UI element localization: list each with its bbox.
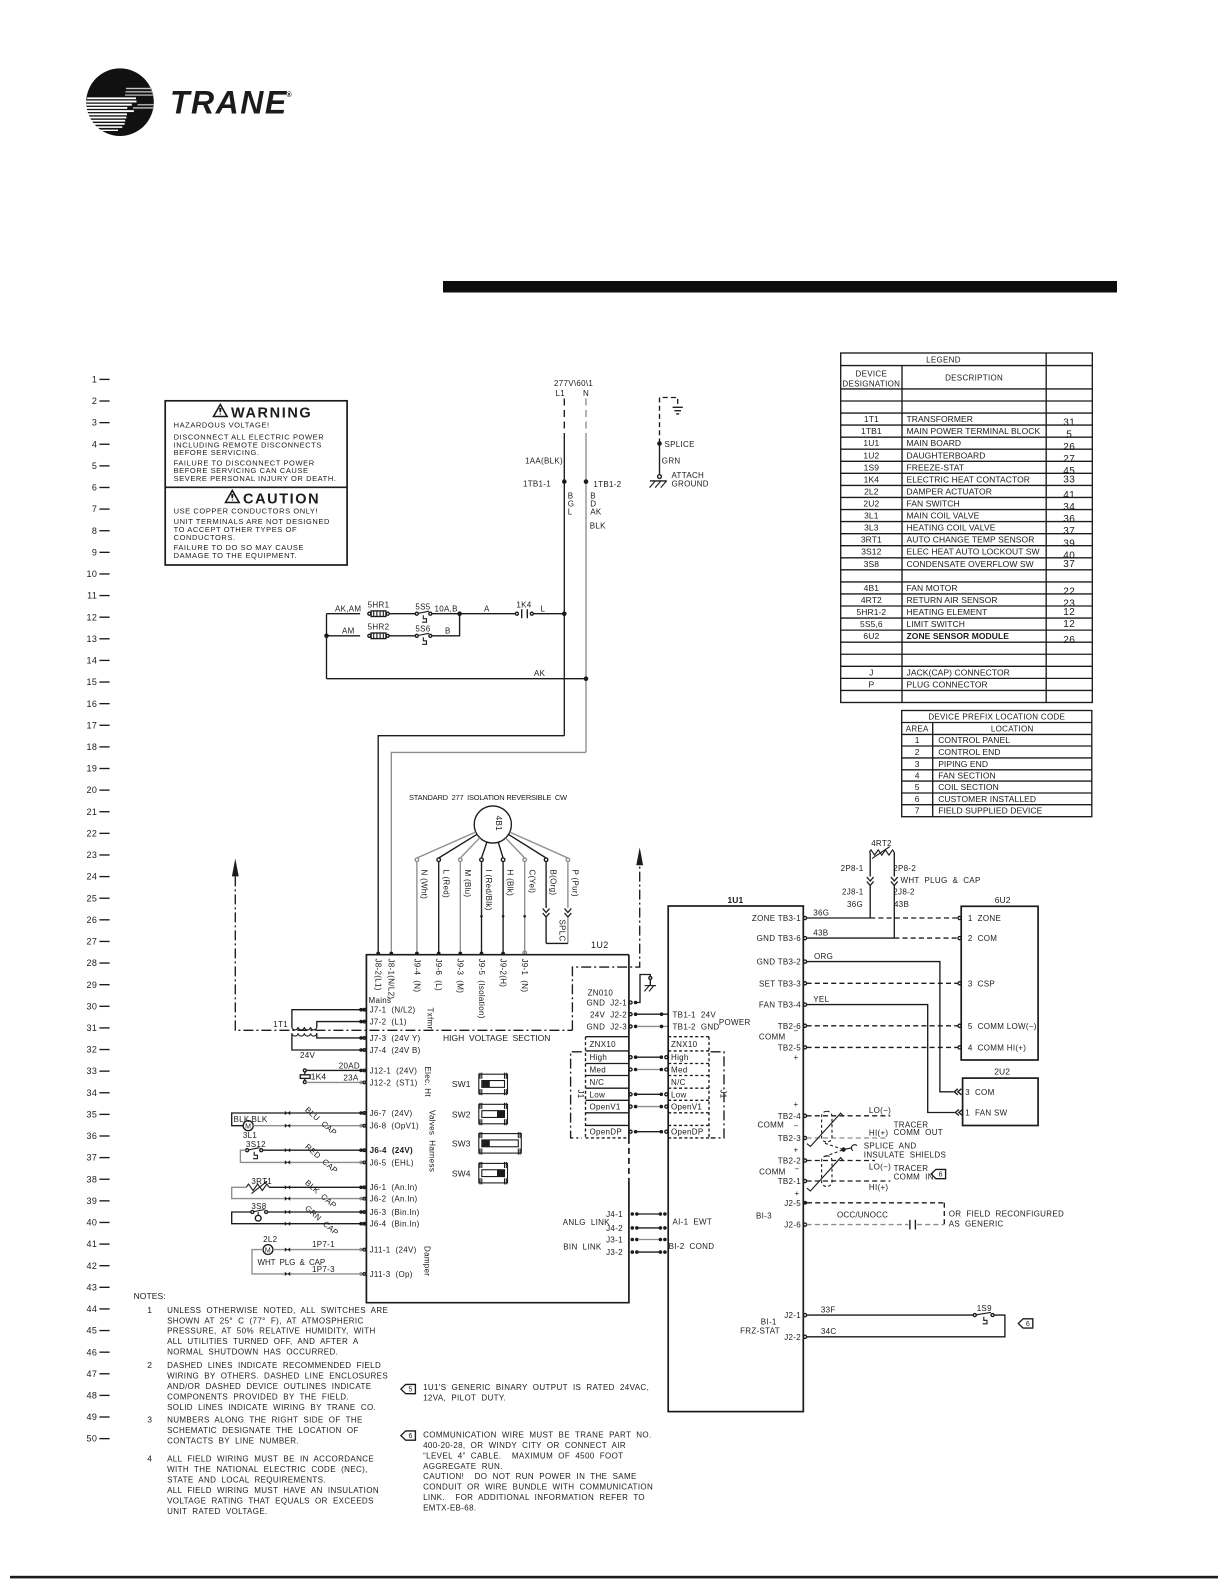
svg-text:AM: AM bbox=[342, 626, 355, 635]
svg-text:1U2: 1U2 bbox=[591, 940, 609, 950]
svg-text:27: 27 bbox=[1063, 454, 1075, 465]
svg-text:1U1: 1U1 bbox=[728, 895, 744, 905]
svg-text:J6-7 (24V): J6-7 (24V) bbox=[370, 1109, 413, 1118]
svg-text:SW2: SW2 bbox=[452, 1109, 471, 1119]
svg-text:J2-6: J2-6 bbox=[784, 1221, 801, 1230]
svg-text:RETURN AIR SENSOR: RETURN AIR SENSOR bbox=[907, 595, 998, 605]
svg-text:50: 50 bbox=[86, 1434, 97, 1444]
svg-text:4B1: 4B1 bbox=[864, 583, 880, 593]
svg-text:DAUGHTERBOARD: DAUGHTERBOARD bbox=[907, 450, 986, 460]
chassis ground symbol bbox=[644, 986, 656, 992]
svg-text:BIN LINK: BIN LINK bbox=[563, 1242, 602, 1251]
svg-text:32: 32 bbox=[86, 1045, 97, 1055]
svg-text:L (Red): L (Red) bbox=[441, 870, 450, 899]
wire 2P8-1 lead bbox=[869, 853, 871, 877]
svg-text:ALL FIELD WIRING MUST HAVE: ALL FIELD WIRING MUST HAVE AN INSULATION bbox=[167, 1486, 379, 1495]
splice node bbox=[657, 441, 662, 446]
svg-text:ZONE TB3-1: ZONE TB3-1 bbox=[752, 914, 801, 923]
svg-text:“LEVEL 4” CABLE. MAXIMUM: “LEVEL 4” CABLE. MAXIMUM OF 4500 FOOT bbox=[423, 1451, 623, 1460]
svg-text:27: 27 bbox=[86, 937, 97, 947]
svg-text:GRN: GRN bbox=[662, 457, 681, 466]
svg-text:34C: 34C bbox=[821, 1327, 837, 1336]
svg-text:USE COPPER CONDUCTORS ONLY!: USE COPPER CONDUCTORS ONLY! bbox=[174, 507, 319, 516]
pin 6U2 4 bbox=[958, 1046, 961, 1049]
svg-text:LOCATION: LOCATION bbox=[991, 725, 1034, 734]
svg-text:3L1: 3L1 bbox=[864, 511, 879, 521]
svg-text:TB2-1: TB2-1 bbox=[778, 1177, 802, 1186]
svg-text:1K4: 1K4 bbox=[311, 1072, 327, 1082]
connector ZNX10 on 1U1 (field) bbox=[668, 1037, 709, 1138]
svg-text:ZNX10: ZNX10 bbox=[671, 1040, 698, 1049]
svg-text:ORG: ORG bbox=[814, 952, 833, 961]
wire bbox=[389, 613, 415, 615]
svg-text:4: 4 bbox=[92, 439, 97, 449]
svg-text:1K4: 1K4 bbox=[516, 601, 531, 610]
svg-text:17: 17 bbox=[86, 720, 97, 730]
svg-text:N/C: N/C bbox=[671, 1078, 686, 1087]
boundary arrow right bbox=[636, 847, 643, 865]
svg-text:5: 5 bbox=[408, 1386, 412, 1393]
svg-text:5HR1-2: 5HR1-2 bbox=[856, 607, 886, 617]
svg-text:34: 34 bbox=[86, 1088, 97, 1098]
svg-text:N: N bbox=[583, 389, 589, 398]
svg-text:2U2: 2U2 bbox=[863, 499, 879, 509]
svg-text:33F: 33F bbox=[821, 1305, 836, 1314]
wire AK bottom bbox=[327, 678, 587, 680]
svg-text:20: 20 bbox=[86, 785, 97, 795]
wire 33F to 1S9 bbox=[807, 1314, 974, 1316]
svg-text:LINK. FOR ADDITIONAL INFO: LINK. FOR ADDITIONAL INFORMATION REFER T… bbox=[423, 1493, 645, 1502]
top edge connection dots J8 bbox=[376, 952, 380, 956]
svg-text:6: 6 bbox=[915, 794, 920, 804]
wire TB2-2 LO(-) comm in bbox=[807, 1160, 875, 1162]
svg-text:BI-2 COND: BI-2 COND bbox=[669, 1242, 715, 1251]
svg-text:+: + bbox=[794, 1100, 799, 1109]
wire color codes N bbox=[590, 492, 606, 531]
svg-text:P (Pur): P (Pur) bbox=[571, 870, 580, 897]
svg-text:N/C: N/C bbox=[590, 1078, 605, 1087]
wire J2-6 unocc bbox=[807, 1224, 909, 1226]
svg-text:6U2: 6U2 bbox=[863, 631, 879, 641]
svg-text:WIRING BY OTHERS. DASHED L: WIRING BY OTHERS. DASHED LINE ENCLOSURES bbox=[167, 1371, 388, 1380]
svg-text:J7-3 (24V Y): J7-3 (24V Y) bbox=[370, 1034, 421, 1043]
svg-text:P: P bbox=[868, 679, 874, 689]
svg-text:HAZARDOUS VOLTAGE!: HAZARDOUS VOLTAGE! bbox=[174, 420, 270, 429]
svg-text:GND J2-1: GND J2-1 bbox=[587, 999, 628, 1008]
svg-text:41: 41 bbox=[1063, 490, 1075, 501]
svg-text:TRANE: TRANE bbox=[170, 85, 288, 121]
comm labels 1U1 bbox=[740, 1026, 799, 1335]
svg-text:7: 7 bbox=[915, 806, 920, 816]
svg-text:NUMBERS ALONG THE RIGHT SI: NUMBERS ALONG THE RIGHT SIDE OF THE bbox=[167, 1415, 363, 1424]
svg-text:SW1: SW1 bbox=[452, 1079, 471, 1089]
wire fan lead B(Org) bbox=[509, 834, 547, 858]
svg-text:J3-1: J3-1 bbox=[606, 1236, 623, 1245]
svg-text:®: ® bbox=[287, 91, 293, 99]
svg-text:J2-1: J2-1 bbox=[784, 1311, 801, 1320]
svg-text:OR FIELD RECONFIGURED: OR FIELD RECONFIGURED bbox=[949, 1209, 1064, 1218]
svg-text:DESCRIPTION: DESCRIPTION bbox=[945, 374, 1003, 383]
svg-text:23: 23 bbox=[86, 850, 97, 860]
splice chevrons on P(Pur) wire bbox=[567, 862, 569, 908]
svg-text:3 COM: 3 COM bbox=[965, 1088, 994, 1097]
svg-text:AK,AM: AK,AM bbox=[335, 604, 361, 613]
svg-text:J9-5 (Isolation): J9-5 (Isolation) bbox=[477, 959, 486, 1019]
dip switch SW1 bbox=[452, 1073, 508, 1096]
svg-text:AS GENERIC: AS GENERIC bbox=[949, 1219, 1004, 1228]
svg-text:3S8: 3S8 bbox=[864, 559, 880, 569]
svg-text:L: L bbox=[568, 508, 573, 517]
svg-text:TB2-3: TB2-3 bbox=[778, 1134, 802, 1143]
svg-text:3: 3 bbox=[92, 418, 97, 428]
svg-text:1U1: 1U1 bbox=[863, 438, 879, 448]
svg-text:J7-2 (L1): J7-2 (L1) bbox=[370, 1018, 407, 1027]
svg-text:23A: 23A bbox=[343, 1073, 358, 1082]
svg-text:COIL SECTION: COIL SECTION bbox=[938, 782, 999, 792]
svg-text:6: 6 bbox=[1026, 1321, 1030, 1328]
svg-text:11: 11 bbox=[87, 591, 97, 601]
svg-text:INSULATE SHIELDS: INSULATE SHIELDS bbox=[864, 1150, 946, 1159]
wire N drop bbox=[585, 399, 587, 435]
svg-text:L1: L1 bbox=[556, 389, 566, 398]
svg-text:6U2: 6U2 bbox=[995, 895, 1011, 905]
svg-text:COMPONENTS PROVIDED BY THE: COMPONENTS PROVIDED BY THE FIELD. bbox=[167, 1392, 349, 1401]
attach ground terminal bbox=[658, 475, 662, 479]
svg-text:J6-4 (24V): J6-4 (24V) bbox=[370, 1146, 413, 1155]
wire N routing to 1U2 J8-1 bbox=[391, 752, 586, 954]
svg-text:M (Blu): M (Blu) bbox=[463, 870, 472, 898]
bottom border rule bbox=[10, 1576, 1218, 1579]
svg-text:Low: Low bbox=[590, 1090, 606, 1099]
wire TB2-1 HI(+) comm in bbox=[807, 1180, 891, 1182]
svg-text:J2-2: J2-2 bbox=[784, 1333, 801, 1342]
svg-text:LIMIT SWITCH: LIMIT SWITCH bbox=[907, 619, 965, 629]
svg-text:HEATING ELEMENT: HEATING ELEMENT bbox=[907, 607, 988, 617]
svg-text:High: High bbox=[671, 1053, 689, 1062]
wire fan lead I (Red/Blk) bbox=[482, 842, 487, 858]
svg-text:2 COM: 2 COM bbox=[968, 934, 997, 943]
wire 34C return bbox=[807, 1315, 1005, 1337]
svg-text:277V\60\1: 277V\60\1 bbox=[554, 379, 593, 388]
svg-text:AI-1 EWT: AI-1 EWT bbox=[673, 1217, 713, 1226]
transformer 1T1 bbox=[273, 1010, 366, 1060]
svg-text:J6-8 (OpV1): J6-8 (OpV1) bbox=[370, 1122, 419, 1131]
svg-text:3: 3 bbox=[915, 759, 920, 769]
svg-text:46: 46 bbox=[86, 1347, 97, 1357]
note 2 bbox=[147, 1360, 388, 1412]
svg-text:J3-2: J3-2 bbox=[606, 1248, 623, 1257]
svg-text:2P8-1: 2P8-1 bbox=[841, 864, 864, 873]
fan motor 4B1 bbox=[474, 806, 511, 843]
svg-text:3: 3 bbox=[147, 1414, 152, 1424]
svg-text:2U2: 2U2 bbox=[994, 1067, 1010, 1077]
pin 6U2 5 bbox=[958, 1024, 961, 1027]
svg-text:4: 4 bbox=[915, 770, 920, 780]
valve 3L1 bbox=[232, 1113, 367, 1140]
svg-text:38: 38 bbox=[86, 1174, 97, 1184]
note 5 text bbox=[423, 1383, 649, 1403]
wire fan lead M (Blu) bbox=[460, 838, 480, 858]
board 1U1 outline bbox=[668, 906, 803, 1412]
svg-text:Med: Med bbox=[671, 1066, 687, 1075]
svg-text:COMM: COMM bbox=[759, 1168, 786, 1177]
caution header bbox=[226, 491, 321, 508]
title bar rule bbox=[443, 281, 1117, 293]
note flag 6 bbox=[401, 1431, 416, 1440]
svg-text:N (Wht): N (Wht) bbox=[420, 870, 429, 900]
svg-text:Low: Low bbox=[671, 1090, 687, 1099]
svg-text:39: 39 bbox=[86, 1196, 97, 1206]
svg-text:OpenDP: OpenDP bbox=[590, 1128, 622, 1137]
svg-text:7: 7 bbox=[92, 504, 97, 514]
svg-text:COMM IN: COMM IN bbox=[894, 1173, 934, 1182]
wire ORG TB3-2 to 3 COM bbox=[807, 962, 954, 1092]
svg-text:TRANSFORMER: TRANSFORMER bbox=[907, 414, 974, 424]
svg-text:1 ZONE: 1 ZONE bbox=[968, 914, 1001, 923]
svg-text:MAIN BOARD: MAIN BOARD bbox=[907, 438, 962, 448]
wire OpenDP link bbox=[629, 1130, 632, 1133]
svg-text:30: 30 bbox=[86, 1001, 97, 1011]
wire YEL TB3-4 to fan sw bbox=[807, 1005, 955, 1113]
svg-text:6: 6 bbox=[92, 483, 97, 493]
svg-text:3L1: 3L1 bbox=[243, 1131, 257, 1140]
wire Med link bbox=[629, 1068, 632, 1071]
svg-text:BLK: BLK bbox=[252, 1115, 268, 1124]
svg-text:ANLG LINK: ANLG LINK bbox=[563, 1218, 610, 1227]
contact OCC/UNOCC bbox=[909, 1220, 911, 1230]
svg-text:5: 5 bbox=[92, 461, 97, 471]
svg-text:1TB1-2: 1TB1-2 bbox=[593, 480, 621, 489]
svg-text:J8-2(L1): J8-2(L1) bbox=[374, 959, 383, 991]
svg-text:ZNX10: ZNX10 bbox=[590, 1040, 617, 1049]
svg-text:37: 37 bbox=[1063, 559, 1075, 570]
svg-text:Elec. Ht: Elec. Ht bbox=[423, 1067, 432, 1098]
svg-text:CONDENSATE OVERFLOW SW: CONDENSATE OVERFLOW SW bbox=[907, 559, 1034, 569]
svg-text:22: 22 bbox=[1063, 587, 1075, 598]
note flag 6 freeze stat bbox=[1018, 1319, 1033, 1328]
svg-text:DAMAGE TO THE EQUIPMENT.: DAMAGE TO THE EQUIPMENT. bbox=[174, 551, 298, 560]
svg-text:12: 12 bbox=[1063, 607, 1075, 618]
svg-text:J8-1(N/L2): J8-1(N/L2) bbox=[387, 959, 396, 1000]
svg-text:35: 35 bbox=[86, 1109, 97, 1119]
warning text bbox=[174, 420, 337, 483]
svg-text:BLK: BLK bbox=[234, 1115, 250, 1124]
svg-text:5 COMM LOW(−): 5 COMM LOW(−) bbox=[968, 1022, 1037, 1031]
svg-text:29: 29 bbox=[86, 980, 97, 990]
svg-text:J: J bbox=[869, 667, 873, 677]
svg-text:COMM: COMM bbox=[758, 1121, 785, 1130]
svg-text:DAMPER ACTUATOR: DAMPER ACTUATOR bbox=[907, 486, 992, 496]
svg-text:31: 31 bbox=[86, 1023, 97, 1033]
svg-text:21: 21 bbox=[86, 807, 97, 817]
svg-text:TB1-1 24V: TB1-1 24V bbox=[673, 1010, 717, 1019]
svg-text:1K4: 1K4 bbox=[864, 474, 880, 484]
bracket J1 right bbox=[711, 1052, 728, 1138]
svg-text:25: 25 bbox=[86, 893, 97, 903]
svg-text:MAIN POWER TERMINAL BLOCK: MAIN POWER TERMINAL BLOCK bbox=[907, 426, 1041, 436]
svg-text:COMM: COMM bbox=[759, 1033, 786, 1042]
svg-text:28: 28 bbox=[86, 958, 97, 968]
svg-text:AUTO CHANGE TEMP SENSOR: AUTO CHANGE TEMP SENSOR bbox=[907, 535, 1035, 545]
twisted shielded pair comm out bbox=[822, 1111, 832, 1142]
svg-text:9: 9 bbox=[92, 547, 97, 557]
svg-text:M: M bbox=[265, 1247, 271, 1254]
svg-text:14: 14 bbox=[86, 656, 97, 666]
svg-text:J1: J1 bbox=[719, 1090, 728, 1099]
svg-text:I (Red/Blk): I (Red/Blk) bbox=[484, 870, 493, 911]
svg-text:ELECTRIC HEAT CONTACTOR: ELECTRIC HEAT CONTACTOR bbox=[907, 474, 1031, 484]
wire A bbox=[460, 613, 516, 615]
svg-text:SPLICE: SPLICE bbox=[665, 440, 695, 449]
svg-text:MAIN COIL VALVE: MAIN COIL VALVE bbox=[907, 511, 980, 521]
svg-text:3RT1: 3RT1 bbox=[861, 535, 882, 545]
pin 2U2 1 FAN SW bbox=[955, 1110, 959, 1116]
svg-text:1S9: 1S9 bbox=[864, 462, 880, 472]
svg-text:20AD: 20AD bbox=[339, 1061, 360, 1070]
svg-text:+: + bbox=[795, 1189, 800, 1198]
svg-text:LO(−): LO(−) bbox=[869, 1162, 891, 1171]
svg-text:2P8-2: 2P8-2 bbox=[893, 864, 916, 873]
svg-text:5S6: 5S6 bbox=[415, 625, 430, 634]
svg-text:26: 26 bbox=[1063, 442, 1075, 453]
svg-text:PIPING END: PIPING END bbox=[938, 759, 988, 769]
svg-text:49: 49 bbox=[86, 1412, 97, 1422]
svg-text:J9-3 (M): J9-3 (M) bbox=[456, 959, 465, 994]
svg-text:ELEC HEAT AUTO LOCKOUT SW: ELEC HEAT AUTO LOCKOUT SW bbox=[907, 547, 1040, 557]
svg-text:5: 5 bbox=[915, 782, 920, 792]
svg-text:1U2: 1U2 bbox=[863, 450, 879, 460]
note 1 bbox=[147, 1305, 388, 1357]
svg-text:BEFORE SERVICING.: BEFORE SERVICING. bbox=[174, 448, 260, 457]
svg-text:CAUTION! DO NOT RUN POWE: CAUTION! DO NOT RUN POWER IN THE SAME bbox=[423, 1472, 637, 1481]
svg-text:OCC/UNOCC: OCC/UNOCC bbox=[837, 1211, 888, 1220]
svg-text:16: 16 bbox=[86, 699, 97, 709]
wire Low link bbox=[629, 1093, 632, 1096]
fan switch 2U2 bbox=[963, 1078, 1039, 1125]
svg-text:36: 36 bbox=[1063, 514, 1075, 525]
svg-text:CONDUIT OR WIRE BUNDLE WIT: CONDUIT OR WIRE BUNDLE WITH COMMUNICATIO… bbox=[423, 1483, 653, 1492]
contactor coil 1K4 bbox=[300, 1061, 366, 1083]
svg-text:OpenV1: OpenV1 bbox=[590, 1103, 621, 1112]
svg-text:43: 43 bbox=[86, 1282, 97, 1292]
svg-text:J6-1 (An.In): J6-1 (An.In) bbox=[370, 1183, 418, 1192]
twisted shielded pair comm in bbox=[822, 1156, 832, 1187]
temp sensor 3RT1 bbox=[232, 1177, 367, 1198]
svg-text:J12-2 (ST1): J12-2 (ST1) bbox=[370, 1078, 418, 1087]
pin 6U2 2 bbox=[958, 937, 961, 940]
warning header bbox=[214, 405, 313, 422]
board 1U2 outline bbox=[366, 955, 629, 1303]
wire High link bbox=[629, 1056, 632, 1059]
earth ground symbol bbox=[673, 407, 683, 414]
wire J2-1 to chassis ground bbox=[636, 975, 651, 1003]
svg-text:BI-3: BI-3 bbox=[756, 1212, 772, 1221]
svg-text:1T1: 1T1 bbox=[864, 414, 879, 424]
pin 2U2 3 COM bbox=[954, 1089, 958, 1095]
svg-text:+: + bbox=[794, 1053, 799, 1062]
svg-text:GND TB3-6: GND TB3-6 bbox=[757, 934, 802, 943]
svg-text:CAUTION: CAUTION bbox=[243, 492, 320, 508]
svg-text:SW4: SW4 bbox=[452, 1168, 471, 1178]
Trane logo globe bbox=[86, 68, 154, 136]
svg-text:36G: 36G bbox=[847, 900, 863, 909]
svg-text:5HR2: 5HR2 bbox=[368, 623, 390, 632]
wire TB2-4 LO(-) comm out bbox=[807, 1115, 891, 1117]
wire fan lead L (Red) bbox=[439, 834, 477, 858]
wire TB2-6 comm low (dashed) bbox=[807, 1025, 958, 1027]
wire 2P8-2 lead bbox=[893, 853, 895, 877]
svg-text:47: 47 bbox=[86, 1369, 97, 1379]
svg-text:CONTROL PANEL: CONTROL PANEL bbox=[938, 735, 1010, 745]
svg-text:26: 26 bbox=[1063, 635, 1075, 646]
wire color codes L1 bbox=[568, 492, 575, 517]
svg-text:BLK: BLK bbox=[590, 521, 606, 530]
svg-text:STATE AND LOCAL REQUIREMENT: STATE AND LOCAL REQUIREMENTS. bbox=[167, 1476, 326, 1485]
svg-text:AGGREGATE RUN.: AGGREGATE RUN. bbox=[423, 1462, 503, 1471]
svg-text:1: 1 bbox=[92, 375, 97, 385]
svg-text:L: L bbox=[541, 604, 546, 613]
svg-text:−: − bbox=[794, 1122, 799, 1131]
svg-text:J9-2(H): J9-2(H) bbox=[499, 959, 508, 988]
svg-text:6: 6 bbox=[939, 1171, 943, 1178]
wire TB2-3 HI(+) comm out bbox=[807, 1137, 887, 1139]
svg-text:PLUG CONNECTOR: PLUG CONNECTOR bbox=[907, 679, 988, 689]
svg-text:J6-2 (An.In): J6-2 (An.In) bbox=[370, 1195, 418, 1204]
svg-text:B(Org): B(Org) bbox=[549, 870, 558, 896]
svg-text:5S5,6: 5S5,6 bbox=[860, 619, 883, 629]
svg-text:OpenDP: OpenDP bbox=[671, 1128, 703, 1137]
svg-text:EMTX-EB-68.: EMTX-EB-68. bbox=[423, 1504, 476, 1513]
svg-text:40: 40 bbox=[86, 1218, 97, 1228]
terminal 1TB1-2 bbox=[584, 479, 589, 484]
svg-text:33: 33 bbox=[86, 1066, 97, 1076]
svg-text:5S5: 5S5 bbox=[415, 602, 430, 611]
svg-text:Med: Med bbox=[590, 1066, 606, 1075]
note flag 5 bbox=[401, 1384, 416, 1393]
wire fan lead P (Pur) bbox=[510, 832, 568, 858]
wire J2-5 occ bbox=[807, 1202, 944, 1204]
svg-text:J6-4 (Bin.In): J6-4 (Bin.In) bbox=[370, 1220, 420, 1229]
svg-text:STANDARD 277 ISOLATION REVER: STANDARD 277 ISOLATION REVERSIBLE CW bbox=[409, 793, 568, 802]
svg-text:DEVICE PREFIX LOCATION CODE: DEVICE PREFIX LOCATION CODE bbox=[928, 713, 1065, 722]
note 6 text bbox=[423, 1430, 653, 1512]
pin 6U2 1 bbox=[958, 916, 961, 919]
device prefix location code table bbox=[902, 711, 1092, 817]
wire row1 bbox=[327, 613, 361, 615]
svg-text:UNIT RATED VOLTAGE.: UNIT RATED VOLTAGE. bbox=[167, 1507, 268, 1516]
svg-text:33: 33 bbox=[1063, 474, 1075, 485]
svg-text:24V: 24V bbox=[300, 1051, 315, 1060]
svg-text:AK: AK bbox=[534, 669, 546, 678]
svg-text:DASHED LINES INDICATE RECOM: DASHED LINES INDICATE RECOMMENDED FIELD bbox=[167, 1361, 381, 1370]
boundary arrow left bbox=[232, 859, 239, 877]
svg-text:GND J2-3: GND J2-3 bbox=[587, 1023, 628, 1032]
svg-text:1: 1 bbox=[915, 735, 920, 745]
svg-text:LO(−): LO(−) bbox=[869, 1106, 891, 1115]
legend table bbox=[841, 353, 1093, 702]
svg-text:5HR1: 5HR1 bbox=[368, 601, 390, 610]
note 3 bbox=[147, 1414, 363, 1445]
svg-text:24: 24 bbox=[86, 872, 97, 882]
splice chevrons on B(Org) wire bbox=[545, 862, 547, 908]
shield splice node bbox=[825, 1143, 858, 1156]
wire heater branch left vertical bbox=[326, 614, 328, 679]
svg-text:SET TB3-3: SET TB3-3 bbox=[759, 979, 801, 988]
dip switch SW2 bbox=[452, 1103, 508, 1126]
svg-text:SEVERE PERSONAL INJURY OR DEAT: SEVERE PERSONAL INJURY OR DEATH. bbox=[174, 474, 337, 483]
svg-text:15: 15 bbox=[86, 677, 97, 687]
svg-text:Damper: Damper bbox=[423, 1246, 432, 1276]
